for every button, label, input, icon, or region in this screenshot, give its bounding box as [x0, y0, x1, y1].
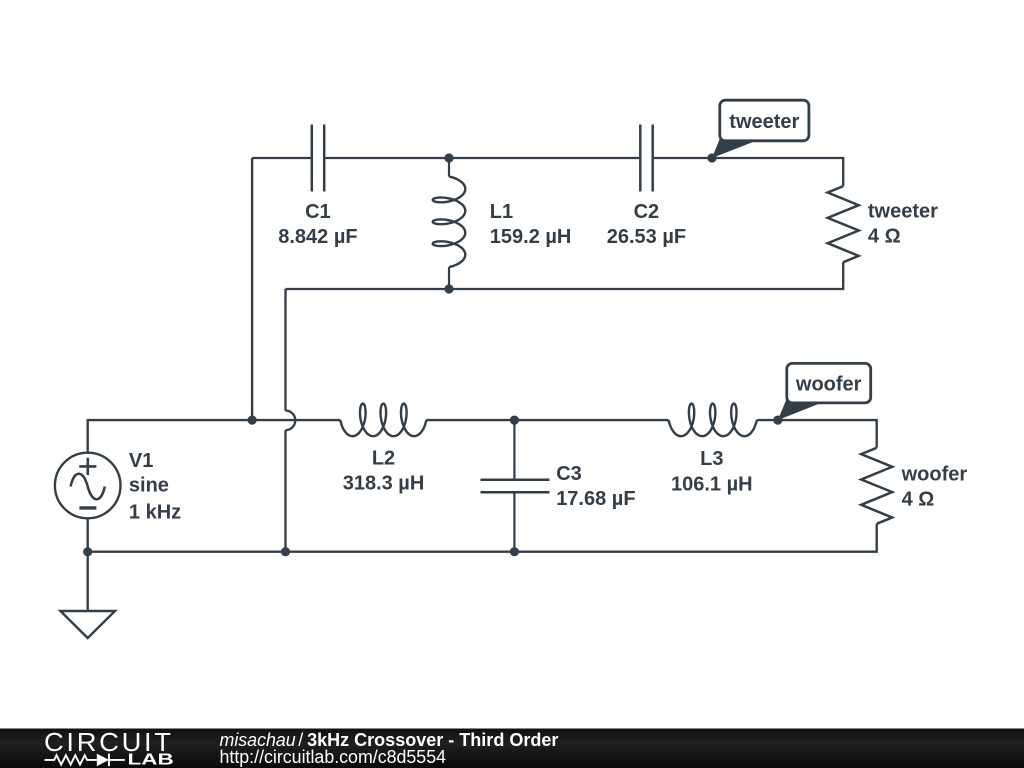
wire mid rail of tweeter loop [286, 262, 844, 289]
V1 sine waveform [71, 474, 105, 500]
wire hop arc over horizontal wire [286, 411, 296, 431]
svg-text:C1: C1 [305, 201, 331, 223]
svg-text:L2: L2 [372, 448, 395, 470]
svg-text:http://circuitlab.com/c8d5554: http://circuitlab.com/c8d5554 [220, 747, 447, 767]
svg-text:26.53 µF: 26.53 µF [607, 226, 686, 248]
svg-text:L3: L3 [700, 448, 723, 470]
flag callout "woofer" [778, 363, 871, 420]
svg-text:tweeter: tweeter [868, 200, 938, 222]
node junction dot tweeter tap [707, 153, 716, 162]
svg-text:4 Ω: 4 Ω [902, 488, 935, 510]
svg-text:L1: L1 [490, 201, 513, 223]
wire bottom rail [88, 524, 877, 552]
svg-text:159.2 µH: 159.2 µH [490, 226, 572, 248]
wire from L3 to woofer corner [757, 420, 877, 448]
svg-text:C2: C2 [634, 201, 660, 223]
svg-text:106.1 µH: 106.1 µH [671, 473, 753, 495]
inductor L1 [433, 158, 466, 289]
wire top rail middle segment (C1 to C2 through node A) [325, 157, 639, 159]
node junction dot L1 bottom / mid rail [444, 284, 453, 293]
flag callout "tweeter" [712, 100, 809, 158]
wire vertical from mid rail down to bottom rail with hop over [284, 289, 286, 411]
node junction dot left vertical joins bottom-loop top rail [248, 416, 257, 425]
node junction dot vertical wire joins bottom rail [281, 547, 290, 556]
svg-text:8.842 µF: 8.842 µF [278, 226, 357, 248]
resistor woofer (4 ohm) [861, 448, 892, 524]
resistor tweeter (4 ohm) [828, 186, 859, 262]
wire ground lead [87, 552, 89, 611]
capacitor C1 [312, 125, 324, 192]
svg-text:17.68 µF: 17.68 µF [556, 488, 635, 510]
svg-text:LAB: LAB [128, 751, 174, 768]
node junction dot top rail / L1 top [444, 153, 453, 162]
svg-text:sine: sine [129, 475, 169, 497]
V1 minus sign [79, 506, 96, 509]
wire V1 top lead and corner to bottom-loop top rail [88, 420, 286, 453]
wire top rail left segment (corner to C1) [252, 157, 311, 159]
wire V1 bottom lead [87, 518, 89, 552]
wire top rail right segment (C2 to tweeter corner) [654, 158, 843, 186]
svg-text:woofer: woofer [795, 373, 862, 395]
V1 plus sign [79, 458, 96, 475]
node junction dot C3 top [510, 416, 519, 425]
inductor L3 [669, 404, 757, 437]
wire between L2 and L3 through node C3 top [426, 419, 668, 421]
inductor L2 [340, 404, 426, 437]
wire left vertical (top rail down to bottom loop) [251, 158, 253, 420]
svg-text:4 Ω: 4 Ω [868, 225, 901, 247]
svg-text:tweeter: tweeter [729, 111, 799, 133]
svg-text:318.3 µH: 318.3 µH [343, 472, 425, 494]
CircuitLab logo resistor-diode glyph [45, 754, 125, 767]
wire top rail of woofer loop after hop to L2 [286, 419, 341, 421]
capacitor C3 with leads [481, 420, 550, 552]
capacitor C2 [640, 125, 652, 192]
svg-text:V1: V1 [129, 450, 153, 472]
svg-text:woofer: woofer [901, 463, 968, 485]
node junction dot woofer tap [773, 416, 782, 425]
node junction dot C3 bottom [510, 547, 519, 556]
node junction dot V1 bottom / ground [83, 547, 92, 556]
wire below hop to bottom rail [284, 430, 286, 552]
footer bar [0, 729, 1024, 768]
voltage source V1 circle [55, 453, 121, 519]
svg-text:C3: C3 [556, 463, 582, 485]
svg-text:1 kHz: 1 kHz [129, 501, 181, 523]
ground symbol [60, 611, 115, 638]
